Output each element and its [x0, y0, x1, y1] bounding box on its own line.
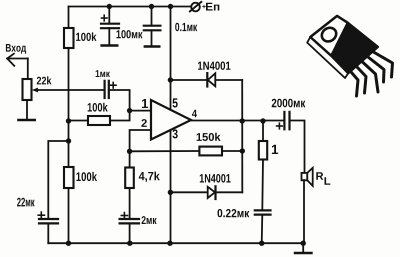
package legs	[352, 52, 393, 96]
input arrow Вход	[7, 58, 28, 60]
label 0.22мк	[218, 209, 250, 217]
label RL sub	[325, 177, 331, 184]
wire top rail	[69, 6, 192, 8]
package body	[331, 23, 378, 73]
label 100k R2	[88, 103, 108, 112]
capacitor 2мк	[120, 218, 139, 220]
wire left vertical x=68.5 upper	[68, 7, 70, 29]
node dot pin2 feedback	[127, 149, 132, 154]
label 150k	[197, 133, 221, 141]
node dot output-diode	[240, 118, 245, 123]
resistor R 100k lower-left	[64, 167, 74, 188]
node dot zobel	[260, 118, 265, 123]
diode 1N4001 top	[170, 79, 207, 81]
wire pin2	[130, 130, 151, 168]
capacitor 100мк	[108, 7, 110, 24]
terminal +En	[191, 3, 200, 12]
resistor 150k	[199, 147, 222, 156]
capacitor 0.22мк	[255, 209, 271, 211]
label 2000мк	[272, 99, 306, 108]
label pin 5	[173, 98, 178, 107]
capacitor 0.1мк	[151, 7, 153, 26]
wire pin1	[130, 110, 151, 112]
wire right vertical x=242.3	[241, 80, 243, 192]
node dot feedback takeoff	[66, 118, 71, 123]
label 100мк	[117, 30, 143, 38]
label pin 3	[173, 129, 178, 138]
label 22k	[37, 76, 52, 84]
label 22мк	[17, 198, 34, 207]
wire cap to speaker	[290, 121, 305, 174]
label pin 1	[142, 99, 148, 108]
wire wiper to cap	[36, 89, 105, 91]
ground pot	[18, 119, 34, 121]
node dot pin5 supply	[168, 4, 173, 9]
node dot rail x=170	[167, 241, 172, 246]
resistor R 100k top-left	[64, 28, 74, 48]
op-amp U1	[151, 100, 191, 140]
label RL speaker	[316, 172, 323, 180]
wire output row	[191, 120, 284, 122]
node dot rail right end	[301, 241, 306, 246]
label 1N4001 D2	[200, 174, 231, 183]
label +Еп	[206, 3, 219, 11]
wire pin5 supply	[170, 7, 172, 110]
label 100k R3	[76, 172, 97, 181]
package tab	[310, 16, 348, 56]
diode 1N4001 bottom	[170, 191, 207, 193]
label pin 2	[141, 119, 146, 127]
wire cap to pin1 corner	[109, 90, 130, 121]
node dot 150k right	[240, 148, 245, 153]
resistor 1 ohm	[262, 121, 264, 141]
label 2мк	[142, 216, 157, 224]
label Вход	[6, 44, 26, 54]
node dot rail x=68.5	[66, 241, 71, 246]
label 0.1мк	[175, 23, 197, 31]
potentiometer 22k	[23, 79, 32, 100]
package tab hole	[319, 25, 339, 44]
label 4,7k	[139, 172, 160, 182]
capacitor 1мк	[103, 81, 105, 98]
pot wiper arrow	[32, 88, 38, 93]
node dot rail x=129.8	[127, 241, 132, 246]
speaker RL	[302, 173, 308, 180]
wire feedback to node	[69, 120, 89, 122]
wire pin3 down	[170, 131, 172, 244]
wire left vertical x=68.5 middle	[68, 48, 70, 167]
wire bottom rail	[48, 242, 303, 244]
node dot pin1	[127, 108, 132, 113]
package front edge strip	[307, 37, 348, 78]
label 100k R1	[76, 32, 96, 41]
label pin 4	[192, 110, 197, 118]
capacitor 2000мк	[283, 112, 285, 129]
node dot 100мк top	[107, 4, 112, 9]
label 1N4001 D1	[198, 62, 231, 70]
label 1мк	[96, 70, 110, 77]
node dot 0.1мк top	[149, 4, 154, 9]
wire left vertical x=68.5 lower	[68, 188, 70, 243]
capacitor 22мк	[39, 218, 58, 220]
resistor 4,7k	[125, 168, 134, 189]
label +Еп plus	[202, 5, 206, 9]
resistor 100k feedback horizontal	[88, 116, 110, 125]
node dot diode2 takeoff	[168, 190, 173, 195]
wire 22мк branch	[48, 141, 68, 219]
IC package TO-220-5 illustration	[307, 16, 392, 96]
ground main	[302, 243, 304, 253]
wire feedback 150k row	[130, 150, 200, 152]
node dot 22мк takeoff	[66, 138, 71, 143]
node dot diode1 takeoff	[168, 77, 173, 82]
node dot rail x=261.7	[259, 241, 264, 246]
label 1 ohm	[272, 145, 278, 154]
